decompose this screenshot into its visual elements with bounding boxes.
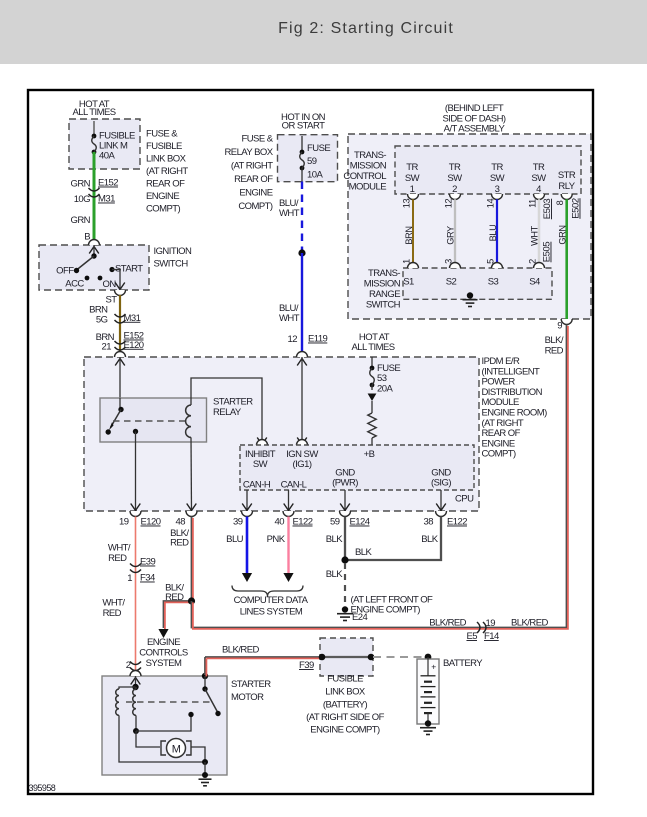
svg-text:WHT: WHT <box>279 313 300 324</box>
svg-text:TR: TR <box>449 162 461 173</box>
connector E39/F34 <box>130 564 141 567</box>
svg-text:9: 9 <box>557 321 562 332</box>
svg-text:S4: S4 <box>529 277 540 288</box>
svg-text:REAR OF: REAR OF <box>234 174 273 185</box>
pin 12 entry arc <box>297 352 308 357</box>
svg-text:E5: E5 <box>466 631 477 642</box>
svg-text:1: 1 <box>127 573 132 584</box>
wire to engine controls <box>164 601 192 628</box>
label IGNITION SWITCH <box>154 246 193 270</box>
svg-text:F14: F14 <box>484 631 499 642</box>
svg-text:RLY: RLY <box>558 181 575 192</box>
fuse & relay box <box>278 135 338 182</box>
svg-text:GRN: GRN <box>71 179 91 190</box>
battery ground <box>425 720 431 726</box>
label E39 / F34 <box>127 557 155 585</box>
svg-text:FUSIBLE: FUSIBLE <box>146 141 182 152</box>
svg-text:10G: 10G <box>74 194 90 205</box>
entry arrow 2 <box>131 678 141 685</box>
svg-text:M31: M31 <box>124 313 141 324</box>
arrow pin 59 <box>340 504 350 511</box>
svg-text:ENGINE: ENGINE <box>239 188 272 199</box>
wire BLU/WHT dashed <box>301 182 303 253</box>
svg-text:MISSION: MISSION <box>364 279 401 290</box>
svg-text:E152: E152 <box>98 178 118 189</box>
label INHIBIT SW <box>245 449 276 470</box>
svg-text:BLK/: BLK/ <box>545 335 564 346</box>
svg-text:59: 59 <box>330 517 340 528</box>
svg-text:MOTOR: MOTOR <box>231 692 264 703</box>
label ENGINE CONTROLS SYSTEM <box>139 637 188 669</box>
battery junction <box>425 654 432 661</box>
label TRANS-MISSION CONTROL MODULE <box>343 150 386 193</box>
svg-text:STR: STR <box>558 170 576 181</box>
svg-text:STARTER: STARTER <box>213 397 253 408</box>
wire GRY TR SW 2 <box>454 199 456 262</box>
svg-text:FUSIBLE: FUSIBLE <box>327 674 363 685</box>
arc IGN SW <box>297 440 308 445</box>
wire BLU/WHT solid <box>301 253 303 352</box>
label BLU/WHT (lower) <box>279 303 300 324</box>
starter ground <box>202 772 208 778</box>
wire BLK/RED starter to F39 <box>205 656 320 658</box>
label BRN 5G / M31 <box>89 305 141 326</box>
starter motor box <box>102 676 227 775</box>
label BLU/WHT (upper) <box>279 198 300 219</box>
wire WHT TR SW 4 <box>538 199 540 262</box>
svg-text:40: 40 <box>275 517 285 528</box>
connector E152 on BRN wire <box>115 341 126 344</box>
label TR SW 2 <box>447 162 462 195</box>
svg-text:21: 21 <box>102 342 112 353</box>
svg-text:(SIG): (SIG) <box>431 478 451 489</box>
label IGN SW (IG1) <box>286 449 318 470</box>
svg-text:IGNITION: IGNITION <box>154 246 193 257</box>
svg-text:(IG1): (IG1) <box>293 459 312 470</box>
label HOT AT ALL TIMES (right) <box>351 332 394 353</box>
svg-text:GRN: GRN <box>557 225 567 244</box>
arrow IGN SW <box>297 438 307 445</box>
svg-text:FUSE: FUSE <box>307 143 330 154</box>
TCM pin cups <box>408 194 573 200</box>
svg-text:10A: 10A <box>307 170 323 181</box>
svg-text:ALL TIMES: ALL TIMES <box>72 107 115 118</box>
label STR RLY <box>558 170 576 192</box>
arrow pin 19 <box>131 504 141 511</box>
pin B entry arc <box>89 240 100 246</box>
svg-text:12: 12 <box>444 199 454 209</box>
wire CAN-L to pin 40 <box>288 490 290 511</box>
label WHT/RED (upper) <box>108 543 131 565</box>
pin ST exit arc <box>115 290 126 296</box>
svg-text:CONTROLS: CONTROLS <box>139 648 188 659</box>
svg-text:59: 59 <box>307 156 317 167</box>
svg-text:ENGINE: ENGINE <box>147 637 180 648</box>
svg-text:BLK/RED: BLK/RED <box>429 618 466 629</box>
svg-text:FUSE &: FUSE & <box>146 129 178 140</box>
header band <box>0 0 647 64</box>
wire GND SIG to pin 38 <box>440 490 442 511</box>
label 59 / E124 <box>330 517 370 528</box>
svg-text:E505: E505 <box>542 242 553 263</box>
svg-text:CAN-H: CAN-H <box>243 480 271 491</box>
svg-text:BLK/RED: BLK/RED <box>222 645 259 656</box>
wire dashed to battery <box>373 656 424 658</box>
label COMPUTER DATA LINES SYSTEM <box>234 595 309 618</box>
IPDM E/R box <box>84 357 479 511</box>
svg-text:E24: E24 <box>352 612 368 623</box>
svg-text:(AT RIGHT: (AT RIGHT <box>231 161 273 172</box>
wire BRN entry to relay <box>119 357 121 398</box>
svg-text:ENGINE COMPT): ENGINE COMPT) <box>310 725 380 736</box>
wire BLK/RED junction to E5 <box>192 325 567 628</box>
svg-text:2: 2 <box>452 184 457 195</box>
diagram frame <box>28 90 593 794</box>
label STARTER RELAY <box>213 397 253 419</box>
label WHT/RED (lower) <box>102 598 125 620</box>
svg-text:E502: E502 <box>571 198 582 219</box>
arrow pin 40 <box>284 504 294 511</box>
arc INHIBIT SW <box>257 440 268 445</box>
relay mechanical link <box>113 420 186 422</box>
svg-text:395958: 395958 <box>29 783 56 793</box>
connector M31 on BRN wire <box>115 314 126 317</box>
label GRN / E152 <box>71 178 119 190</box>
wire GRN STR RLY <box>565 199 568 319</box>
connector 2 arcs <box>130 662 141 665</box>
svg-text:CPU: CPU <box>455 494 474 505</box>
wire coil to pin 48 <box>190 437 193 511</box>
wire resistor to +B <box>371 438 373 445</box>
svg-text:STARTER: STARTER <box>231 679 271 690</box>
label STARTER MOTOR <box>231 679 271 703</box>
svg-text:ON: ON <box>103 279 117 290</box>
svg-text:COMPT): COMPT) <box>146 204 181 215</box>
svg-text:MODULE: MODULE <box>349 182 387 193</box>
svg-text:E503: E503 <box>542 199 553 220</box>
wire BLK/RED down to starter box <box>204 657 206 675</box>
svg-text:8: 8 <box>555 200 565 205</box>
svg-text:A/T ASSEMBLY: A/T ASSEMBLY <box>444 124 506 135</box>
wire PNK pin 40 <box>287 517 289 574</box>
arrow engine controls <box>158 629 168 638</box>
wire coil to INHIBIT SW <box>191 378 262 445</box>
svg-text:COMPUTER DATA: COMPUTER DATA <box>234 595 309 606</box>
svg-text:WHT/: WHT/ <box>108 543 131 554</box>
label GND (PWR) <box>332 468 358 489</box>
CPU box <box>240 445 474 490</box>
starter switch <box>202 673 221 716</box>
label TR SW 3 <box>490 162 505 195</box>
label HOT IN ON OR START <box>281 112 326 132</box>
svg-text:13: 13 <box>402 199 412 209</box>
svg-text:E39: E39 <box>140 557 156 568</box>
ignition switch contacts <box>74 245 115 280</box>
wire fuse to resistor <box>371 401 373 413</box>
svg-text:SW: SW <box>405 173 420 184</box>
wire BLK pin 59 <box>344 517 346 561</box>
svg-text:38: 38 <box>424 517 434 528</box>
label TR SW 1 <box>405 162 420 195</box>
brace computer data lines <box>232 586 303 597</box>
wire START to ST <box>112 270 120 291</box>
wire into fusible link <box>93 121 95 136</box>
svg-text:GRY: GRY <box>446 226 456 245</box>
motor M <box>161 739 191 758</box>
label 19 / E120 <box>119 517 161 528</box>
arrow INHIBIT SW <box>257 438 267 445</box>
relay switch <box>106 398 139 435</box>
svg-text:(AT RIGHT: (AT RIGHT <box>146 166 188 177</box>
svg-text:14: 14 <box>486 199 496 209</box>
starter solenoid wiring <box>116 676 205 762</box>
svg-text:4: 4 <box>536 184 541 195</box>
svg-text:LINK BOX: LINK BOX <box>325 687 366 698</box>
svg-text:BLK: BLK <box>355 547 373 558</box>
svg-text:RED: RED <box>545 346 564 357</box>
label GND (SIG) <box>431 468 451 489</box>
junction BLK/RED <box>188 597 195 604</box>
svg-text:WHT: WHT <box>279 208 300 219</box>
starter relay box <box>100 398 207 442</box>
svg-text:ALL TIMES: ALL TIMES <box>351 342 394 353</box>
svg-text:SW: SW <box>531 173 546 184</box>
svg-text:12: 12 <box>288 334 298 345</box>
arrow pin 39 <box>242 504 252 511</box>
label HOT AT ALL TIMES (left) <box>72 99 115 118</box>
exit arrow START <box>115 283 125 290</box>
IPDM pin cups <box>130 511 447 517</box>
svg-text:(BATTERY): (BATTERY) <box>323 700 368 711</box>
wire BRN TR SW 1 <box>412 199 414 262</box>
svg-text:GRN: GRN <box>71 215 91 226</box>
svg-text:CONTROL: CONTROL <box>343 171 386 182</box>
label BRN 21 / E152 E120 <box>96 331 144 353</box>
entry arrow B <box>89 247 99 254</box>
svg-text:WHT: WHT <box>530 225 540 246</box>
junction BLU/WHT <box>298 249 305 256</box>
pin 21 entry arc <box>115 352 126 357</box>
svg-text:S2: S2 <box>446 277 457 288</box>
A/T assembly box <box>348 134 591 319</box>
connector E5/F14 <box>466 618 499 642</box>
svg-text:BATTERY: BATTERY <box>443 658 483 669</box>
svg-text:SW: SW <box>490 173 505 184</box>
svg-text:(PWR): (PWR) <box>332 478 358 489</box>
ground E24 <box>342 606 348 612</box>
connector M31 (inline) <box>89 188 100 191</box>
svg-text:+: + <box>431 662 436 672</box>
svg-text:SW: SW <box>447 173 462 184</box>
entry arrow 21 <box>115 359 125 366</box>
resistor <box>368 413 376 438</box>
svg-text:REAR OF: REAR OF <box>146 179 185 190</box>
wire CAN-H to pin 39 <box>246 490 248 511</box>
transmission control module box <box>395 146 581 194</box>
entry arrow 12 <box>297 359 307 366</box>
diode arrow <box>368 394 377 402</box>
svg-text:19: 19 <box>486 618 496 629</box>
svg-text:5G: 5G <box>96 315 108 326</box>
label 38 / E122 <box>424 517 468 528</box>
svg-text:RELAY BOX: RELAY BOX <box>224 147 273 158</box>
svg-text:ENGINE: ENGINE <box>146 191 179 202</box>
svg-text:MISSION: MISSION <box>350 161 387 172</box>
svg-text:BLK: BLK <box>326 534 344 545</box>
wire motor to ground rail <box>191 747 208 775</box>
svg-text:E120: E120 <box>141 517 161 528</box>
svg-text:PNK: PNK <box>267 534 286 545</box>
svg-text:F34: F34 <box>140 573 155 584</box>
battery <box>417 657 439 724</box>
svg-text:SW: SW <box>253 459 268 470</box>
svg-text:B: B <box>84 232 90 243</box>
range switch pin cups <box>408 263 545 268</box>
svg-text:40A: 40A <box>99 151 115 162</box>
wire BRN ignition to IPDM <box>119 295 121 352</box>
label BLK/RED (pin 48) <box>170 528 189 549</box>
junction BLK <box>341 556 348 563</box>
svg-text:F39: F39 <box>299 660 314 671</box>
svg-text:BLK/RED: BLK/RED <box>511 618 548 629</box>
label fuse & fusible link box location <box>146 129 188 215</box>
arrow BLU <box>242 573 252 582</box>
svg-text:SWITCH: SWITCH <box>366 300 401 311</box>
svg-text:TRANS-: TRANS- <box>354 150 386 161</box>
svg-text:BLU: BLU <box>226 534 244 545</box>
svg-text:SYSTEM: SYSTEM <box>146 658 182 669</box>
svg-text:TRANS-: TRANS- <box>368 268 400 279</box>
svg-text:OR START: OR START <box>282 121 325 132</box>
svg-text:RELAY: RELAY <box>213 407 242 418</box>
label TRANS-MISSION RANGE SWITCH <box>364 268 401 311</box>
wire relay contact to pin 19 <box>135 432 137 512</box>
fuse & fusible link box <box>69 119 140 169</box>
pin 2 entry arc <box>130 671 141 677</box>
wire BLK/RED pin 48 to junction <box>191 517 193 602</box>
svg-text:E122: E122 <box>447 517 467 528</box>
svg-text:M: M <box>172 743 181 755</box>
svg-text:SWITCH: SWITCH <box>154 259 189 270</box>
svg-text:19: 19 <box>119 517 129 528</box>
wire GRN fusible link to ignition switch <box>93 152 96 240</box>
svg-text:Fig 2: Starting Circuit: Fig 2: Starting Circuit <box>278 20 454 37</box>
label IPDM E/R description <box>482 356 548 460</box>
arrow PNK <box>283 573 293 582</box>
svg-text:RED: RED <box>170 538 189 549</box>
svg-text:TR: TR <box>406 162 418 173</box>
svg-text:BLK: BLK <box>421 534 439 545</box>
svg-text:+B: +B <box>364 449 375 460</box>
transmission range switch box <box>403 268 552 299</box>
svg-text:ACC: ACC <box>65 279 84 290</box>
label BLK/RED (right side) <box>545 335 564 357</box>
svg-text:CAN-L: CAN-L <box>281 480 307 491</box>
svg-text:E120: E120 <box>124 340 144 351</box>
starter mechanical link <box>126 701 212 703</box>
svg-text:E119: E119 <box>308 334 328 345</box>
svg-text:BRN: BRN <box>404 226 414 244</box>
svg-text:39: 39 <box>233 517 243 528</box>
label 12 / E119 <box>288 334 328 346</box>
wire BLK pin 38 <box>345 517 441 561</box>
svg-text:E124: E124 <box>350 517 370 528</box>
svg-text:LINK BOX: LINK BOX <box>146 154 187 165</box>
wire GND PWR to pin 59 <box>344 490 346 511</box>
fusible link battery wire <box>319 654 375 661</box>
svg-text:S3: S3 <box>488 277 499 288</box>
wire BLK dashed to E24 <box>344 563 346 606</box>
label fuse & relay box location <box>224 134 273 213</box>
wire IGN SW <box>301 357 303 445</box>
label A/T assembly location <box>442 103 505 135</box>
relay coil <box>186 405 191 437</box>
range switch ground <box>467 292 473 298</box>
svg-text:E122: E122 <box>293 517 313 528</box>
svg-text:11: 11 <box>528 199 538 208</box>
svg-text:FUSE &: FUSE & <box>241 134 273 145</box>
svg-text:(BEHIND LEFT: (BEHIND LEFT <box>445 103 504 114</box>
pin 9 exit arc <box>561 319 572 325</box>
svg-text:(AT RIGHT SIDE OF: (AT RIGHT SIDE OF <box>306 712 384 723</box>
wire WHT/RED pin 19 <box>135 517 137 672</box>
svg-text:BLK: BLK <box>326 569 344 580</box>
svg-text:TR: TR <box>491 162 503 173</box>
ignition switch box <box>39 245 149 290</box>
svg-text:COMPT): COMPT) <box>238 201 273 212</box>
wire BLU TR SW 3 <box>496 199 498 262</box>
svg-text:M31: M31 <box>98 194 115 205</box>
svg-text:RED: RED <box>103 608 122 619</box>
svg-text:COMPT): COMPT) <box>482 449 517 460</box>
label TR SW 4 <box>531 162 546 195</box>
svg-text:S1: S1 <box>403 277 414 288</box>
label at left front of engine compt <box>351 595 434 616</box>
svg-text:BLU: BLU <box>488 225 498 242</box>
label fusible link box battery <box>306 674 384 736</box>
arrow pin 48 <box>187 504 197 511</box>
arrow pin 38 <box>436 504 446 511</box>
svg-text:3: 3 <box>495 184 500 195</box>
label 10G / M31 <box>74 194 115 206</box>
fuse 59 10A <box>300 136 331 182</box>
svg-text:RED: RED <box>108 553 127 564</box>
label BLK/RED (junction) <box>165 583 184 604</box>
svg-text:TR: TR <box>533 162 545 173</box>
svg-text:1: 1 <box>410 184 415 195</box>
svg-text:RANGE: RANGE <box>369 289 400 300</box>
svg-text:WHT/: WHT/ <box>102 598 125 609</box>
svg-text:48: 48 <box>176 517 186 528</box>
fusible link M 40A <box>92 131 135 162</box>
svg-text:LINES SYSTEM: LINES SYSTEM <box>240 607 303 618</box>
label 40 / E122 <box>275 517 313 528</box>
svg-text:20A: 20A <box>377 383 393 394</box>
fusible link box (battery) <box>320 638 373 676</box>
wire BLU pin 39 <box>246 517 249 574</box>
fuse 53 20A <box>370 357 401 394</box>
svg-text:OFF: OFF <box>56 266 74 277</box>
